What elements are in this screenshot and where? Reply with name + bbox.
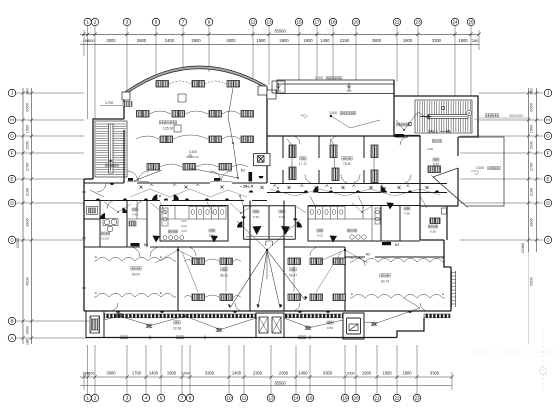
svg-text:B: B	[10, 319, 13, 324]
svg-text:E: E	[10, 177, 13, 182]
svg-text:1900: 1900	[167, 371, 177, 376]
black door leaf top	[395, 134, 404, 137]
outer walls	[84, 87, 451, 338]
toilet block right: stalls	[308, 206, 381, 242]
right rooms column walls	[420, 137, 458, 240]
top dimension band lines	[80, 34, 479, 44]
svg-text:4.96: 4.96	[404, 212, 410, 216]
activity room left scallop rows	[94, 257, 176, 261]
urinal row left block	[163, 236, 184, 240]
grid bubble C (left)	[8, 236, 15, 243]
svg-text:M1: M1	[241, 169, 246, 173]
svg-text:M2: M2	[395, 243, 400, 247]
stair landing lamp	[408, 122, 411, 125]
toilet block right sinks	[375, 208, 380, 224]
grid bubble 12 (top)	[249, 18, 256, 25]
grid bubble 18 (top)	[329, 18, 336, 25]
hall front arc wall	[124, 67, 266, 94]
entrance porch center	[256, 313, 284, 338]
svg-text:2000: 2000	[26, 103, 30, 111]
svg-text:56.47: 56.47	[289, 274, 297, 278]
svg-text:8.50: 8.50	[433, 163, 439, 167]
activity room left label 60.57	[131, 267, 134, 270]
svg-text:35560: 35560	[274, 380, 286, 385]
stair2 name label	[397, 123, 400, 126]
washroom band walls	[84, 201, 420, 248]
staircase 2 (right)	[415, 100, 472, 133]
svg-text:1500: 1500	[26, 125, 30, 133]
lobby fan arrowheads	[228, 304, 231, 308]
changing room label 4.45	[132, 208, 135, 211]
right vertical hatched strip	[452, 271, 456, 307]
office partitions	[283, 136, 364, 184]
svg-text:5: 5	[155, 20, 158, 25]
grid bubble J (right)	[544, 89, 551, 96]
closet door fans dark	[237, 221, 242, 227]
grid bubble G (left)	[8, 132, 15, 139]
washband extra wires	[104, 202, 131, 212]
grid bubble 20 (bottom)	[352, 394, 359, 401]
grid bubble 4 (bottom)	[142, 394, 149, 401]
hall light fixtures row2	[137, 111, 150, 118]
laundry room label 9.58	[428, 225, 431, 228]
grid bubble B (left)	[8, 317, 15, 324]
svg-text:300: 300	[88, 39, 94, 43]
svg-text:3: 3	[126, 20, 129, 25]
window tick marks bottom wall	[120, 336, 306, 339]
svg-text:300X200: 300X200	[509, 114, 522, 118]
svg-text:60.57: 60.57	[132, 273, 140, 277]
svg-text:2600: 2600	[279, 38, 289, 43]
closets mid labels	[253, 210, 256, 213]
corridor doors into washrooms	[107, 201, 115, 209]
svg-text:7: 7	[182, 20, 185, 25]
right canopy slope edge ticks	[431, 175, 467, 208]
lower rooms diag wiring	[155, 250, 178, 263]
svg-text:4900: 4900	[26, 277, 30, 285]
svg-text:1000: 1000	[182, 372, 190, 376]
svg-text:22.08: 22.08	[173, 327, 181, 331]
bottom grid leader lines	[84, 345, 452, 394]
laundry fixture	[430, 218, 440, 224]
svg-text:1900: 1900	[362, 371, 372, 376]
hall light fixtures row4	[147, 164, 160, 171]
bottom grid tick slashes	[82, 375, 453, 378]
top dimension numbers	[83, 28, 478, 43]
activity room right label 60.74	[380, 274, 383, 277]
svg-text:23: 23	[415, 20, 421, 25]
svg-text:3800: 3800	[372, 38, 382, 43]
staircase 1 (left)	[95, 121, 127, 177]
svg-text:9: 9	[208, 20, 211, 25]
svg-text:E: E	[442, 256, 444, 260]
office1 fixtures	[289, 145, 296, 158]
svg-text:24: 24	[452, 20, 458, 25]
hall double door left	[127, 171, 138, 182]
svg-text:10.50: 10.50	[101, 237, 109, 241]
svg-text:2AL-5: 2AL-5	[243, 185, 253, 189]
closet wiring wedges	[253, 226, 262, 235]
balcony label 22.08	[174, 321, 177, 324]
svg-text:1400: 1400	[149, 371, 159, 376]
left dimension numbers (rotated)	[16, 88, 30, 345]
bottom-right hatched strip	[424, 314, 450, 318]
room bottom wall blobs	[116, 311, 120, 313]
left grid leader lines	[16, 93, 89, 338]
svg-text:2700: 2700	[26, 163, 30, 171]
grid bubble 23 (bottom)	[413, 394, 420, 401]
svg-text:3000: 3000	[106, 371, 116, 376]
svg-text:G: G	[546, 134, 550, 139]
svg-text:1500: 1500	[530, 125, 534, 133]
grid bubble C (right)	[544, 236, 551, 243]
toilet block left labels	[168, 230, 171, 233]
hall wiring runs	[233, 143, 238, 178]
corridor wiring zigzag	[130, 189, 247, 197]
svg-text:E: E	[95, 255, 97, 259]
svg-text:15: 15	[296, 20, 302, 25]
svg-text:125.36: 125.36	[163, 127, 173, 131]
svg-text:G: G	[10, 134, 14, 139]
grid bubble 2 (top)	[91, 18, 98, 25]
top grid leader lines	[84, 26, 479, 119]
left grid tick slashes	[21, 91, 33, 339]
door arcs lower band	[150, 247, 160, 257]
svg-text:M: M	[468, 112, 471, 116]
svg-text:19: 19	[342, 396, 348, 401]
svg-text:2100: 2100	[26, 188, 30, 196]
balcony door arcs	[110, 303, 118, 311]
grid bubble 6 (bottom)	[157, 394, 164, 401]
svg-text:E: E	[95, 291, 97, 295]
closet wall lights	[242, 217, 246, 219]
svg-text:4.00: 4.00	[427, 147, 433, 151]
grid bubble G (right)	[544, 132, 551, 139]
grid bubble 10 (bottom)	[225, 394, 232, 401]
svg-text:36.02: 36.02	[220, 274, 228, 278]
svg-text:3: 3	[126, 396, 129, 401]
lower band partition walls	[84, 201, 444, 312]
stair1 lower lobby wiring	[90, 190, 104, 197]
svg-text:1400: 1400	[298, 371, 308, 376]
svg-text:1700: 1700	[132, 371, 142, 376]
grid bubble 21 (bottom)	[373, 394, 380, 401]
svg-text:3.750: 3.750	[105, 101, 114, 105]
dorm2 fixtures	[288, 258, 301, 265]
grid bubble F (left)	[8, 149, 15, 156]
svg-text:F: F	[11, 151, 14, 156]
svg-text:6.50: 6.50	[253, 215, 259, 219]
svg-text:2500: 2500	[191, 38, 201, 43]
dorm2 label 56.47	[290, 268, 293, 271]
svg-text:21: 21	[374, 396, 380, 401]
svg-text:3.500: 3.500	[476, 166, 484, 170]
exit sign marks above corridor doors	[214, 178, 220, 181]
svg-text:8: 8	[189, 396, 192, 401]
svg-text:20: 20	[353, 396, 359, 401]
svg-text:1500: 1500	[530, 141, 534, 149]
svg-text:M2: M2	[387, 240, 392, 244]
svg-text:6.50: 6.50	[279, 215, 285, 219]
grid bubble 5 (top)	[152, 18, 159, 25]
distribution label 8.56	[327, 321, 330, 324]
office door arcs	[305, 175, 314, 184]
svg-text:2600: 2600	[137, 38, 147, 43]
svg-text:H: H	[546, 118, 549, 123]
svg-text:E: E	[442, 292, 444, 296]
svg-text:1600: 1600	[458, 38, 468, 43]
wiring drops	[160, 202, 166, 214]
stair2 door arc	[400, 137, 408, 145]
svg-text:2: 2	[94, 20, 97, 25]
toilet block left: stalls	[160, 206, 226, 220]
grid bubble F (right)	[544, 149, 551, 156]
corridor walls	[84, 183, 447, 201]
svg-text:2150: 2150	[340, 38, 350, 43]
hall row1 wiring arcs	[169, 81, 226, 84]
grid bubble 22 (top)	[393, 18, 400, 25]
svg-text:22: 22	[394, 20, 400, 25]
office2b fixtures	[371, 145, 378, 158]
svg-text:2100: 2100	[530, 188, 534, 196]
svg-text:1900: 1900	[382, 371, 392, 376]
svg-text:13: 13	[266, 20, 272, 25]
svg-text:3000: 3000	[106, 38, 116, 43]
svg-text:E: E	[351, 292, 353, 296]
svg-text:1: 1	[86, 396, 89, 401]
svg-text:22360: 22360	[521, 243, 525, 254]
balcony wiring	[104, 316, 149, 325]
washband dark door fans	[100, 213, 105, 219]
svg-text:4000: 4000	[226, 38, 236, 43]
grid bubble H (right)	[544, 116, 551, 123]
balcony ceiling fans	[116, 313, 122, 317]
stair2 M circle	[466, 110, 471, 115]
svg-text:3300: 3300	[430, 371, 440, 376]
grid bubble 16 (bottom)	[306, 394, 313, 401]
smoke detector mid terrace	[330, 115, 332, 117]
right block basins	[350, 235, 366, 239]
hall ceiling access square	[178, 94, 186, 102]
stair2 direction arrow	[420, 115, 431, 118]
grid bubble D (right)	[544, 199, 551, 206]
svg-text:1500: 1500	[26, 141, 30, 149]
svg-text:2400: 2400	[165, 38, 175, 43]
svg-text:8.56: 8.56	[327, 326, 333, 330]
svg-text:16: 16	[307, 396, 313, 401]
svg-text:380: 380	[26, 88, 30, 94]
corridor junction dots	[277, 187, 279, 189]
grid bubble 11 (bottom)	[240, 394, 247, 401]
home-run wedges	[153, 236, 161, 243]
arc corner post left	[122, 92, 130, 100]
svg-text:23: 23	[414, 396, 420, 401]
office labels	[300, 157, 303, 160]
svg-text:17: 17	[314, 20, 320, 25]
grid bubble D (left)	[8, 199, 15, 206]
grid bubble 2 (bottom)	[91, 394, 98, 401]
meeting room fixtures small office right	[428, 166, 441, 173]
entrance lobby wiring hub	[266, 249, 268, 251]
toilet block left sinks	[162, 208, 187, 231]
svg-text:F: F	[547, 151, 550, 156]
bottom dimension band lines	[80, 377, 452, 386]
svg-text:2700: 2700	[530, 163, 534, 171]
svg-text:22360: 22360	[16, 238, 20, 249]
grid bubble 17 (top)	[313, 18, 320, 25]
grid bubble 14 (bottom)	[292, 394, 299, 401]
office wiring	[291, 158, 293, 167]
svg-text:22: 22	[394, 396, 400, 401]
svg-text:9.58: 9.58	[430, 230, 436, 234]
M2 door left	[131, 243, 140, 246]
canopy band top	[277, 80, 394, 94]
top grid tick slashes	[82, 33, 480, 36]
svg-text:3300: 3300	[432, 38, 442, 43]
svg-text:380: 380	[530, 88, 534, 94]
porch distribution room right	[343, 313, 364, 339]
grid bubble 1 (top)	[84, 18, 91, 25]
right dimension band lines	[529, 88, 537, 344]
canopy drain arrow left	[276, 83, 281, 91]
svg-text:2AL-1: 2AL-1	[428, 130, 438, 134]
hall light fixtures row3	[160, 136, 173, 143]
activity room right scallops	[350, 258, 445, 262]
svg-text:2300: 2300	[253, 371, 263, 376]
svg-text:1: 1	[86, 20, 89, 25]
office2 fixtures	[330, 145, 337, 158]
hall room label 125.36	[159, 121, 162, 124]
svg-text:3300: 3300	[205, 371, 215, 376]
svg-text:12: 12	[250, 20, 256, 25]
svg-text:1800: 1800	[403, 38, 413, 43]
grid bubble 7 (top)	[179, 18, 186, 25]
corridor blobs right	[249, 190, 253, 192]
svg-text:14: 14	[293, 396, 299, 401]
washroom label 10.50	[100, 232, 103, 235]
svg-text:25: 25	[468, 20, 474, 25]
svg-text:J: J	[11, 91, 13, 96]
right canopy (3.500)	[433, 137, 504, 206]
svg-text:1800: 1800	[26, 326, 30, 334]
grid bubble E (left)	[8, 175, 15, 182]
grid bubble 3 (top)	[123, 18, 130, 25]
svg-text:E: E	[351, 256, 353, 260]
stair1 up arrow	[109, 159, 112, 170]
outer wall switch ticks	[82, 192, 310, 340]
dorm1 label 36.02	[221, 268, 224, 271]
canopy drain arrow mid	[347, 83, 352, 91]
porch column left	[86, 311, 104, 338]
svg-text:2: 2	[94, 396, 97, 401]
elevator shaft	[254, 154, 270, 166]
dorm1 fixtures	[192, 258, 205, 265]
svg-text:7: 7	[181, 396, 184, 401]
svg-text:2300: 2300	[279, 371, 289, 376]
grid bubble 7 (bottom)	[178, 394, 185, 401]
hall light fixtures row1	[156, 81, 169, 88]
svg-text:E: E	[546, 177, 549, 182]
svg-text:1000: 1000	[346, 372, 354, 376]
stair2 block outline	[394, 80, 478, 137]
svg-text:3.500: 3.500	[329, 111, 337, 115]
bottom dimension numbers	[83, 371, 440, 386]
grid bubble 25 (top)	[467, 18, 474, 25]
svg-text:M2: M2	[144, 243, 149, 247]
right grid tick slashes	[527, 91, 538, 241]
svg-text:9.01: 9.01	[317, 234, 323, 238]
svg-text:1500: 1500	[256, 38, 266, 43]
svg-text:3300: 3300	[323, 371, 333, 376]
grid bubble 23 (top)	[414, 18, 421, 25]
svg-text:3300: 3300	[530, 218, 534, 226]
svg-text:13: 13	[268, 396, 274, 401]
grid bubble 8 (bottom)	[186, 394, 193, 401]
changing 4.96	[404, 207, 407, 210]
svg-text:J: J	[547, 91, 549, 96]
switch ticks	[150, 183, 154, 186]
grid bubble 19 (bottom)	[341, 394, 348, 401]
door fans dark small	[152, 194, 157, 200]
grid bubble E (right)	[544, 175, 551, 182]
svg-text:17.17: 17.17	[299, 162, 307, 166]
svg-text:180: 180	[26, 339, 30, 345]
washroom fixtures small room	[87, 207, 98, 215]
canopy left box	[272, 81, 285, 93]
stair1 exit door	[97, 183, 106, 192]
svg-text:M1: M1	[366, 253, 371, 257]
grid bubble 15 (top)	[295, 18, 302, 25]
black door bar lobby	[249, 172, 253, 181]
svg-text:300: 300	[88, 372, 94, 376]
arc corner post right	[258, 86, 267, 95]
svg-text:6300: 6300	[530, 277, 534, 285]
grid bubble 13 (bottom)	[267, 394, 274, 401]
corridor switch x-symbols	[140, 186, 429, 190]
grid bubble 22 (bottom)	[393, 394, 400, 401]
basins left washroom	[103, 219, 118, 232]
svg-text:3.600: 3.600	[189, 150, 197, 154]
svg-text:1400: 1400	[232, 371, 242, 376]
right grid leader lines	[460, 93, 543, 240]
svg-text:3300: 3300	[26, 218, 30, 226]
faded underlay marks bottom-right	[472, 332, 556, 390]
svg-text:10: 10	[226, 396, 232, 401]
svg-text:E: E	[160, 255, 162, 259]
svg-text:M1: M1	[446, 130, 451, 134]
grid bubble 13 (top)	[265, 18, 272, 25]
terrace door arc	[292, 136, 300, 144]
offices top wall	[267, 135, 420, 137]
grid bubble H (left)	[8, 116, 15, 123]
svg-text:20: 20	[353, 20, 359, 25]
M2 door right	[382, 242, 391, 245]
svg-text:E: E	[160, 291, 162, 295]
right dimension numbers (rotated)	[521, 88, 534, 285]
hall level mark 3.600	[186, 154, 199, 157]
misc wall lights corridor left	[110, 183, 114, 185]
svg-text:4.45: 4.45	[132, 213, 138, 217]
hall double door right	[210, 171, 221, 182]
svg-text:35560: 35560	[274, 28, 286, 33]
closet shelf	[246, 237, 293, 246]
grid bubble 1 (bottom)	[84, 394, 91, 401]
svg-text:1800: 1800	[402, 371, 412, 376]
stair2 wiring	[404, 112, 430, 130]
svg-text:1800: 1800	[303, 38, 313, 43]
ceiling note top right	[485, 114, 488, 117]
grid bubble 3 (bottom)	[123, 394, 130, 401]
